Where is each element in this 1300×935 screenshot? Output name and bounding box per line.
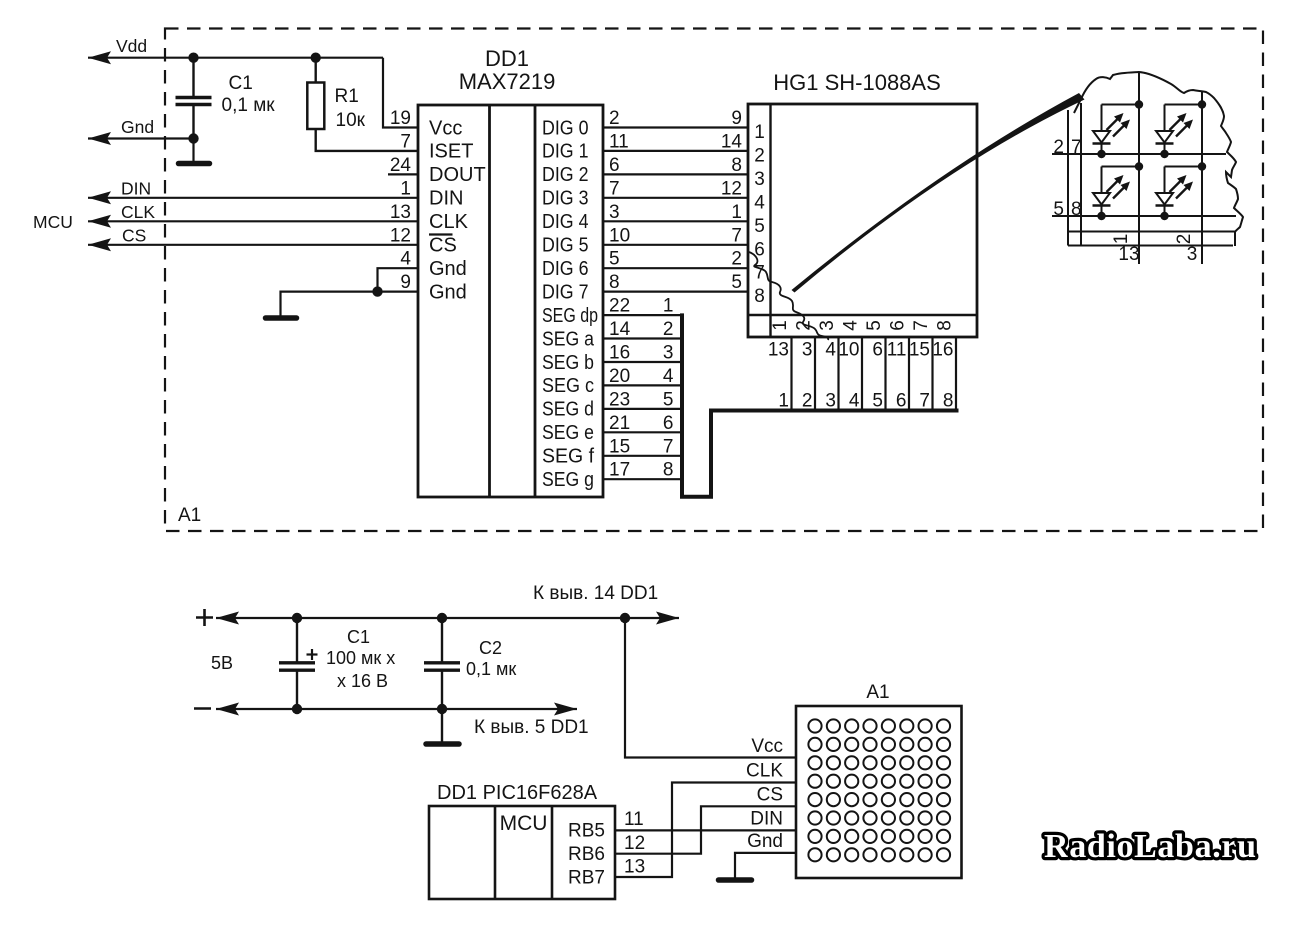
svg-text:7: 7	[754, 263, 765, 284]
svg-text:DIG 1: DIG 1	[542, 141, 589, 163]
wire SEG c to bus 4	[603, 384, 682, 386]
svg-text:15: 15	[909, 340, 930, 361]
svg-text:3: 3	[825, 391, 836, 412]
svg-text:8: 8	[754, 286, 765, 307]
junction dot pins 4/9	[372, 286, 382, 296]
svg-text:5: 5	[1053, 199, 1064, 220]
capacitor C1	[192, 58, 194, 97]
wire SEG b to bus 3	[603, 361, 682, 363]
svg-text:10к: 10к	[336, 110, 366, 131]
svg-text:3: 3	[663, 343, 674, 364]
svg-text:DOUT: DOUT	[429, 164, 486, 186]
svg-text:R1: R1	[335, 86, 359, 107]
wire SEG g to bus 8	[603, 478, 682, 480]
svg-text:Gnd: Gnd	[747, 831, 783, 852]
wire Vdd corner to pin 19	[383, 58, 418, 128]
LED D2	[1156, 100, 1207, 158]
svg-text:6: 6	[609, 155, 620, 176]
LED D1	[1093, 100, 1144, 158]
svg-text:2: 2	[731, 249, 742, 270]
svg-text:ISET: ISET	[429, 141, 473, 163]
svg-text:14: 14	[609, 319, 631, 340]
svg-text:DIN: DIN	[121, 178, 151, 198]
wire DIG 7 to HG1 pin 5	[603, 291, 748, 293]
svg-text:24: 24	[390, 155, 412, 176]
svg-text:5: 5	[609, 249, 620, 270]
wire HG1 pin 6 to bus	[884, 337, 886, 411]
svg-text:4: 4	[841, 320, 862, 331]
detail column line 1	[1138, 72, 1140, 264]
wire DIN	[88, 197, 418, 199]
svg-text:9: 9	[731, 108, 742, 129]
svg-text:CLK: CLK	[429, 211, 469, 233]
svg-text:3: 3	[817, 320, 838, 331]
svg-text:8: 8	[1071, 199, 1082, 220]
svg-text:К выв. 5 DD1: К выв. 5 DD1	[474, 717, 589, 738]
wire C1 to ground	[192, 139, 194, 163]
svg-text:7: 7	[731, 225, 742, 246]
svg-text:SEG b: SEG b	[542, 352, 594, 374]
svg-text:RB6: RB6	[568, 844, 605, 865]
IC DD1 MAX7219	[418, 105, 603, 497]
svg-text:6: 6	[663, 413, 674, 434]
matrix dot r5c1	[808, 793, 821, 806]
svg-text:8: 8	[663, 460, 674, 481]
wire CS	[88, 244, 418, 246]
svg-text:12: 12	[721, 178, 742, 199]
svg-text:6: 6	[888, 320, 909, 331]
svg-text:22: 22	[609, 296, 630, 317]
svg-text:1: 1	[663, 296, 674, 317]
svg-text:5: 5	[864, 320, 885, 331]
wire Vdd rail	[88, 57, 383, 59]
svg-text:SEG c: SEG c	[542, 375, 594, 397]
svg-text:SEG f: SEG f	[542, 446, 594, 468]
junction dots power rails	[292, 613, 302, 623]
svg-text:Gnd: Gnd	[429, 258, 467, 280]
svg-text:CLK: CLK	[121, 202, 155, 222]
svg-text:12: 12	[390, 225, 411, 246]
svg-text:3: 3	[754, 169, 765, 190]
detail torn outline	[1074, 72, 1243, 246]
svg-text:C2: C2	[479, 638, 502, 658]
matrix dot r8c1	[808, 848, 821, 861]
plus rail arrow right	[656, 612, 679, 625]
minus sign	[194, 707, 211, 710]
pointer curve to detail	[792, 93, 1085, 293]
svg-text:6: 6	[872, 340, 883, 361]
svg-text:Gnd: Gnd	[121, 117, 154, 137]
LED D4	[1156, 162, 1207, 220]
svg-text:13: 13	[1118, 244, 1139, 265]
svg-text:MAX7219: MAX7219	[459, 69, 556, 94]
svg-text:13: 13	[768, 340, 789, 361]
net Vdd arrow	[88, 51, 111, 64]
wire CLK	[88, 220, 418, 222]
svg-text:2: 2	[802, 391, 813, 412]
svg-text:2: 2	[663, 319, 674, 340]
detail row line 1 (pins 2|7)	[1052, 153, 1226, 155]
svg-text:10: 10	[838, 340, 859, 361]
svg-text:DIG 3: DIG 3	[542, 188, 589, 210]
wire RB5 to DIN	[615, 829, 796, 831]
svg-text:5: 5	[872, 391, 883, 412]
matrix dot r6c1	[808, 811, 821, 824]
detail bottom bus line 2	[1068, 245, 1233, 247]
wire HG1 pin 15 to bus	[931, 337, 933, 411]
wire DIG 4 to HG1 pin 1	[603, 220, 748, 222]
svg-text:DD1 PIC16F628A: DD1 PIC16F628A	[437, 782, 598, 804]
svg-text:DIG 0: DIG 0	[542, 117, 589, 139]
plus rail wire	[216, 617, 679, 619]
junction dot C1/Vdd	[188, 53, 198, 63]
svg-text:SEG a: SEG a	[542, 328, 595, 350]
IC DD1 PIC16F628A	[429, 806, 615, 899]
svg-text:2: 2	[754, 145, 765, 166]
svg-text:16: 16	[609, 343, 630, 364]
wire SEG dp to bus 1	[603, 314, 682, 316]
svg-text:CLK: CLK	[746, 761, 783, 782]
svg-text:11: 11	[609, 131, 629, 152]
capacitor C2	[441, 618, 443, 662]
ground symbol	[426, 741, 459, 747]
svg-text:RB7: RB7	[568, 868, 605, 889]
capacitor C1 (electrolytic)	[296, 618, 298, 662]
svg-text:DIG 5: DIG 5	[542, 235, 589, 257]
net DIN arrow	[88, 191, 111, 204]
svg-text:9: 9	[400, 272, 411, 293]
svg-text:2: 2	[1174, 234, 1195, 245]
svg-text:19: 19	[390, 108, 411, 129]
detail column line 2	[1201, 92, 1203, 264]
svg-text:CS: CS	[122, 225, 146, 245]
detail bus line vertical 1	[1067, 110, 1069, 246]
svg-text:1: 1	[754, 122, 765, 143]
wire DIG 3 to HG1 pin 12	[603, 197, 748, 199]
svg-text:SEG d: SEG d	[542, 399, 594, 421]
ground symbol	[179, 161, 210, 167]
svg-text:RB5: RB5	[568, 821, 605, 842]
plus sign	[196, 616, 213, 619]
ground symbol	[266, 315, 297, 321]
svg-text:4: 4	[663, 366, 674, 387]
svg-text:5: 5	[754, 216, 765, 237]
svg-text:Vcc: Vcc	[751, 736, 783, 757]
wire DOUT stub pin 24	[388, 173, 418, 175]
ground symbol	[719, 877, 752, 883]
svg-text:MCU: MCU	[500, 812, 548, 835]
wire RB6 to CS	[615, 806, 796, 853]
svg-text:SEG dp: SEG dp	[542, 305, 598, 327]
svg-text:1: 1	[1111, 234, 1132, 245]
svg-text:1: 1	[778, 391, 789, 412]
wire SEG a to bus 2	[603, 337, 682, 339]
wire DIG 6 to HG1 pin 2	[603, 267, 748, 269]
svg-text:21: 21	[609, 413, 630, 434]
svg-text:4: 4	[400, 249, 411, 270]
display module A1	[796, 706, 962, 878]
wire C2 to ground	[441, 709, 443, 742]
svg-text:3: 3	[802, 340, 813, 361]
matrix dot r1c1	[808, 719, 821, 732]
svg-text:0,1 мк: 0,1 мк	[222, 95, 276, 116]
svg-text:DIG 6: DIG 6	[542, 258, 589, 280]
svg-text:MCU: MCU	[33, 212, 73, 232]
svg-text:12: 12	[624, 833, 645, 854]
svg-text:100 мк х: 100 мк х	[326, 648, 395, 668]
detail bus line vertical 2	[1080, 103, 1082, 246]
svg-text:5В: 5В	[211, 653, 233, 673]
svg-text:DIN: DIN	[429, 188, 463, 210]
svg-text:C1: C1	[229, 73, 253, 94]
wire HG1 pin 3 to bus	[814, 337, 816, 411]
net Gnd arrow	[88, 132, 111, 145]
svg-text:4: 4	[825, 340, 836, 361]
polarity plus mark	[307, 653, 318, 655]
svg-text:11: 11	[887, 340, 907, 361]
matrix dot r4c1	[808, 775, 821, 788]
detail bottom bus line 1	[1068, 231, 1236, 233]
svg-text:10: 10	[609, 225, 630, 246]
svg-text:DIG 4: DIG 4	[542, 211, 589, 233]
wire Vcc branch to A1	[625, 618, 796, 758]
svg-text:14: 14	[721, 131, 743, 152]
svg-text:2: 2	[609, 108, 620, 129]
svg-text:7: 7	[911, 320, 932, 331]
wire pin 9 to ground	[281, 292, 419, 317]
svg-text:К выв. 14 DD1: К выв. 14 DD1	[533, 583, 658, 604]
wire SEG e to bus 6	[603, 431, 682, 433]
svg-text:7: 7	[919, 391, 930, 412]
svg-text:C1: C1	[347, 627, 370, 647]
svg-text:CS: CS	[757, 785, 783, 806]
svg-text:3: 3	[609, 202, 620, 223]
svg-text:7: 7	[400, 131, 411, 152]
svg-text:13: 13	[624, 857, 645, 878]
CS overline	[429, 233, 453, 235]
wire SEG f to bus 7	[603, 455, 682, 457]
wire DIG 0 to HG1 pin 9	[603, 126, 748, 128]
junction dot R1/Vdd	[311, 53, 321, 63]
svg-text:13: 13	[390, 202, 411, 223]
svg-text:8: 8	[731, 155, 742, 176]
svg-text:A1: A1	[866, 682, 889, 703]
wire DIG 5 to HG1 pin 7	[603, 244, 748, 246]
svg-text:Vdd: Vdd	[116, 36, 147, 56]
wire Gnd to ground	[735, 853, 796, 878]
wire HG1 pin 11 to bus	[908, 337, 910, 411]
svg-text:4: 4	[754, 192, 765, 213]
break squiggle on HG1	[749, 252, 828, 340]
svg-text:8: 8	[935, 320, 956, 331]
svg-text:11: 11	[624, 809, 644, 830]
svg-text:8: 8	[609, 272, 620, 293]
svg-text:17: 17	[609, 460, 630, 481]
svg-text:8: 8	[943, 391, 954, 412]
minus rail wire	[216, 708, 577, 710]
minus rail arrow left	[216, 703, 239, 716]
svg-text:Gnd: Gnd	[429, 281, 467, 303]
svg-text:HG1 SH-1088AS: HG1 SH-1088AS	[773, 70, 941, 95]
plus rail arrow left	[216, 612, 239, 625]
wire HG1 pin 4 to bus	[837, 337, 839, 411]
svg-text:16: 16	[932, 340, 953, 361]
svg-text:DIN: DIN	[750, 809, 783, 830]
wire SEG d to bus 5	[603, 408, 682, 410]
svg-text:SEG e: SEG e	[542, 422, 594, 444]
wire RB7 to CLK	[615, 783, 796, 878]
svg-text:4: 4	[849, 391, 860, 412]
svg-text:5: 5	[731, 272, 742, 293]
svg-text:20: 20	[609, 366, 630, 387]
svg-text:DIG 7: DIG 7	[542, 281, 589, 303]
svg-text:0,1 мк: 0,1 мк	[466, 659, 516, 679]
svg-text:х 16 В: х 16 В	[337, 671, 388, 691]
module A1 dashed border	[165, 29, 1263, 532]
svg-text:15: 15	[609, 436, 630, 457]
wire Gnd rail	[88, 137, 194, 139]
wire HG1 pin 13 to bus	[790, 337, 792, 411]
svg-text:1: 1	[770, 320, 791, 331]
svg-text:23: 23	[609, 389, 630, 410]
matrix dot r7c1	[808, 830, 821, 843]
matrix dot r2c1	[808, 738, 821, 751]
net CS arrow	[88, 238, 111, 251]
svg-text:2: 2	[1053, 137, 1064, 158]
net CLK arrow	[88, 215, 111, 228]
svg-text:Vcc: Vcc	[429, 117, 462, 139]
minus rail arrow right	[554, 703, 577, 716]
svg-text:7: 7	[609, 178, 620, 199]
svg-text:1: 1	[400, 178, 411, 199]
svg-text:RadioLaba.ru: RadioLaba.ru	[1044, 828, 1256, 865]
svg-text:SEG g: SEG g	[542, 469, 594, 491]
svg-text:7: 7	[663, 436, 674, 457]
matrix dot r3c1	[808, 756, 821, 769]
svg-text:A1: A1	[178, 505, 201, 526]
wire HG1 pin 16 to bus	[955, 337, 957, 411]
svg-text:DIG 2: DIG 2	[542, 164, 589, 186]
svg-text:3: 3	[1187, 244, 1198, 265]
wire SEG collector bus	[682, 313, 959, 496]
LED D3	[1093, 162, 1144, 220]
detail row line 2 (pins 5|8)	[1052, 215, 1236, 217]
svg-text:1: 1	[731, 202, 742, 223]
wire DIG 2 to HG1 pin 8	[603, 173, 748, 175]
svg-text:6: 6	[896, 391, 907, 412]
wire pin 4 to pin 9	[378, 268, 419, 291]
wire DIG 1 to HG1 pin 14	[603, 150, 748, 152]
resistor R1	[315, 58, 317, 83]
display HG1 SH-1088AS	[748, 104, 977, 337]
svg-text:CS: CS	[429, 235, 457, 257]
svg-text:7: 7	[1071, 137, 1082, 158]
junction dot C1/Gnd	[188, 133, 198, 143]
wire HG1 pin 10 to bus	[861, 337, 863, 411]
svg-text:DD1: DD1	[485, 46, 529, 71]
svg-text:5: 5	[663, 389, 674, 410]
